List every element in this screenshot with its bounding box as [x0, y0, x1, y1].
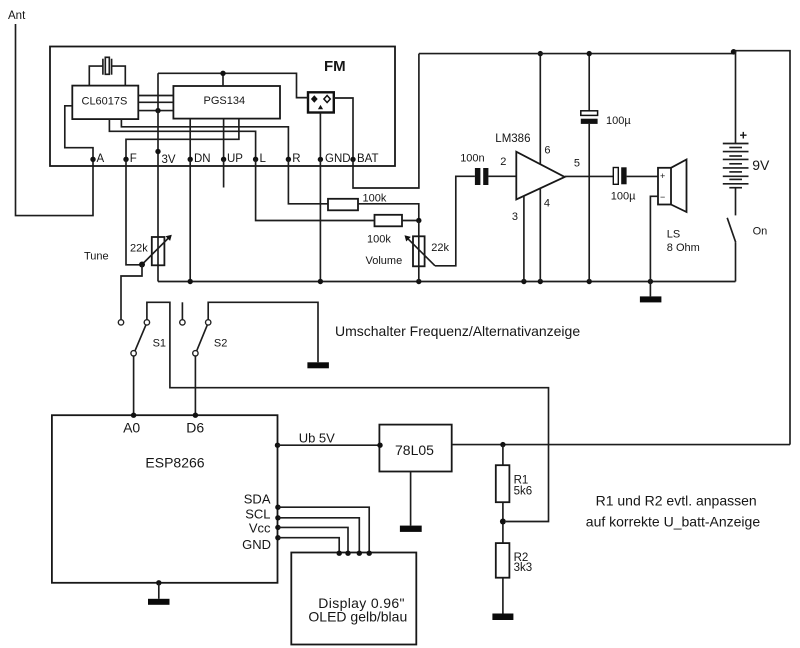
svg-text:SDA: SDA — [244, 492, 271, 507]
pin SDA — [244, 492, 281, 510]
pin GND — [318, 157, 323, 162]
svg-text:+: + — [660, 171, 665, 181]
V+ rail right jog — [733, 51, 790, 445]
svg-text:3: 3 — [512, 211, 518, 223]
svg-text:LM386: LM386 — [495, 133, 530, 145]
junction on bus line 3 and 3V line — [155, 108, 160, 113]
ground rail — [158, 281, 736, 283]
wire SDA to display — [278, 507, 369, 553]
wire 100k lower to mix node — [402, 220, 419, 222]
junction 3V net at PGS134 top pin — [220, 71, 225, 76]
pin 5 output wire — [565, 175, 614, 177]
pin 4 line — [539, 188, 541, 281]
svg-text:22k: 22k — [431, 242, 449, 254]
regulator 78L05 — [379, 425, 451, 472]
IC PGS134 — [173, 86, 280, 119]
wire indicator right lead to BAT — [334, 98, 353, 159]
junction DN at rail — [188, 279, 193, 284]
module FM box — [50, 47, 395, 167]
pin BAT — [350, 157, 355, 162]
capacitor 100u decoupling — [581, 54, 632, 282]
MCU ESP8266 box — [52, 415, 278, 583]
junction R1 R2 — [500, 519, 506, 525]
pin SCL — [245, 507, 280, 522]
wire R pin to 100k upper — [288, 159, 328, 204]
IC CL6017S — [72, 86, 138, 120]
junction 100u at V+ rail — [587, 51, 592, 56]
speaker LS — [658, 160, 700, 255]
pin 3V — [155, 149, 160, 154]
svg-text:4: 4 — [544, 198, 550, 210]
wire Volume track — [418, 221, 420, 282]
pin Vcc — [249, 521, 281, 536]
junction GND at rail — [318, 279, 323, 284]
junction pin3 at rail — [521, 279, 526, 284]
resistor R2 3k3 — [496, 543, 532, 613]
resistor 100k upper (R channel) — [328, 192, 387, 210]
wire S1 common to A0 — [133, 356, 135, 415]
wire A pin to CL6017S left pin — [65, 106, 93, 160]
svg-text:5k6: 5k6 — [514, 485, 533, 497]
junction 78L05 input — [377, 443, 382, 448]
ground symbol ESP — [148, 583, 170, 605]
pin 3 line — [523, 196, 525, 282]
potentiometer Tune 22k body — [152, 237, 165, 265]
svg-text:R1 und R2 evtl. anpassen: R1 und R2 evtl. anpassen — [596, 493, 757, 509]
svg-text:OLED gelb/blau: OLED gelb/blau — [308, 609, 407, 625]
display box — [291, 553, 416, 645]
pin L — [253, 157, 258, 162]
svg-text:3k3: 3k3 — [514, 562, 533, 574]
junction display SCL — [357, 551, 362, 556]
wire Ub 5V to 78L05 — [278, 444, 381, 446]
svg-text:L: L — [260, 153, 267, 165]
wire indicator bottom lead to GND pin — [319, 113, 321, 160]
junction display Vcc — [345, 551, 350, 556]
wire SCL to display — [278, 518, 359, 553]
wire 78L05 to battery plus — [452, 444, 790, 446]
svg-text:CL6017S: CL6017S — [82, 96, 128, 108]
svg-text:FM: FM — [324, 58, 346, 75]
wire CL6017S to PGS134 bus line 1 — [138, 95, 173, 97]
svg-text:LS: LS — [667, 229, 680, 241]
junction Tune wiper — [139, 262, 145, 268]
wire R pin to CL6017S bottom pin — [121, 119, 288, 159]
junction speaker minus at rail — [648, 279, 653, 284]
svg-text:6: 6 — [544, 144, 550, 156]
wire L pin to 100k lower — [256, 159, 375, 220]
wire F pin to Tune wiper — [126, 159, 142, 264]
wire S2 common to D6 — [194, 356, 196, 415]
junction R1 top — [500, 442, 505, 447]
svg-text:UP: UP — [227, 153, 243, 165]
ground symbol S2 — [307, 362, 329, 368]
wire L pin to CL6017S bottom pin — [109, 119, 255, 159]
svg-text:22k: 22k — [130, 243, 148, 255]
svg-text:DN: DN — [194, 153, 211, 165]
svg-text:2: 2 — [500, 156, 506, 168]
svg-text:S2: S2 — [214, 337, 227, 349]
wire DN to ground rail — [189, 159, 191, 281]
wire 3V vertical line — [157, 73, 159, 281]
wire 100k upper to mix node — [358, 204, 419, 221]
wire S2 contact to ground — [208, 302, 318, 362]
wire BAT to V+ rail — [353, 54, 419, 188]
svg-text:GND: GND — [325, 153, 351, 165]
wire crystal right lead to CL6017S — [112, 66, 126, 86]
svg-text:9V: 9V — [752, 157, 770, 173]
svg-text:5: 5 — [574, 158, 580, 170]
ground symbol 78L05 — [400, 472, 422, 532]
wire output cap to speaker — [627, 175, 658, 177]
pin 6 line — [539, 54, 541, 165]
crystal Q1 — [103, 57, 112, 74]
wire GND to display — [278, 538, 339, 554]
wire CL6017S to PGS134 bus line 3 — [138, 110, 173, 112]
svg-text:S1: S1 — [153, 337, 166, 349]
wire UP pin to PGS134 — [223, 119, 225, 160]
wire Tune wiper to switch S1 left contact — [121, 265, 142, 320]
pin F — [123, 157, 128, 162]
svg-text:100µ: 100µ — [611, 190, 636, 202]
wire indicator left lead — [297, 97, 309, 99]
svg-text:8 Ohm: 8 Ohm — [667, 242, 700, 254]
junction pin 6 at V+ rail — [538, 51, 543, 56]
wire crystal left lead to CL6017S — [89, 66, 103, 86]
pin Ub 5V — [275, 431, 335, 448]
svg-text:100k: 100k — [363, 192, 387, 204]
V+ rail — [419, 53, 734, 55]
capacitor 100u output — [611, 167, 636, 202]
contact circle spare stub — [180, 320, 185, 325]
pin R — [286, 157, 291, 162]
svg-text:Ub 5V: Ub 5V — [299, 431, 335, 446]
wire S1 contact to battery divider — [147, 302, 549, 521]
svg-text:100µ: 100µ — [606, 115, 631, 127]
svg-text:Vcc: Vcc — [249, 521, 271, 536]
svg-text:Tune: Tune — [84, 251, 109, 263]
svg-text:auf korrekte U_batt-Anzeige: auf korrekte U_batt-Anzeige — [586, 514, 761, 530]
wire Vcc to display — [278, 527, 348, 553]
svg-text:F: F — [130, 153, 137, 165]
pin GND ESP — [242, 535, 280, 552]
junction cap at rail — [587, 279, 592, 284]
svg-text:R: R — [292, 153, 300, 165]
capacitor 100n — [460, 152, 488, 185]
wire antenna from Ant to pin A — [16, 24, 94, 216]
wire F pin to PGS134 bottom pin — [126, 119, 239, 160]
wire GND pin to ground rail — [319, 159, 321, 281]
svg-text:3V: 3V — [162, 154, 176, 166]
switch S1 — [131, 320, 166, 356]
battery 9V — [723, 51, 770, 188]
wire DN pin to PGS134 — [189, 119, 191, 160]
resistor 100k lower (L channel) — [367, 215, 402, 246]
svg-text:GND: GND — [242, 537, 271, 552]
stereo indicator component in FM module — [308, 92, 334, 112]
wire CL6017S to PGS134 bus line 2 — [138, 101, 173, 103]
svg-text:A0: A0 — [123, 420, 140, 436]
svg-text:A: A — [97, 153, 105, 165]
junction pin4 at rail — [538, 279, 543, 284]
pin DN — [188, 157, 193, 162]
wire battery minus to switch — [735, 188, 737, 216]
ground symbol main — [640, 282, 662, 303]
switch On — [727, 218, 767, 243]
switch S2 — [193, 320, 228, 356]
wire 3V net top run — [158, 73, 308, 97]
potentiometer Volume wiper arrow — [405, 235, 436, 265]
junction Volume at rail — [416, 279, 421, 284]
svg-text:On: On — [753, 226, 768, 238]
wire UP stub below module — [223, 159, 225, 187]
potentiometer Tune wiper arrow — [142, 235, 172, 265]
junction battery plus — [731, 49, 737, 55]
svg-text:+: + — [740, 128, 748, 143]
svg-text:−: − — [660, 192, 665, 202]
junction display GND — [337, 551, 342, 556]
svg-text:BAT: BAT — [357, 153, 379, 165]
op-amp U1 LM386 — [495, 133, 564, 199]
pin ESP ground — [156, 580, 161, 585]
svg-text:Volume: Volume — [366, 255, 403, 267]
wire PGS134 top pin stub — [222, 73, 224, 86]
svg-text:100k: 100k — [367, 234, 391, 246]
svg-text:Ant: Ant — [8, 10, 26, 22]
svg-text:Umschalter Frequenz/Alternativ: Umschalter Frequenz/Alternativanzeige — [335, 323, 580, 339]
svg-text:ESP8266: ESP8266 — [145, 454, 204, 470]
pin D6 — [186, 413, 204, 436]
svg-text:PGS134: PGS134 — [204, 95, 246, 107]
wire spare stub — [181, 302, 183, 319]
resistor R1 5k6 — [496, 445, 532, 543]
pin A — [90, 157, 95, 162]
potentiometer Volume 22k body — [413, 236, 425, 266]
ground symbol R2 — [492, 614, 513, 621]
svg-text:100n: 100n — [460, 152, 484, 164]
wire 100n to pin 2 — [488, 175, 516, 177]
wire speaker minus to ground — [650, 196, 658, 281]
junction mix node — [416, 218, 421, 223]
svg-text:D6: D6 — [186, 420, 204, 436]
pin UP — [221, 157, 226, 162]
wire Volume wiper to 100n — [435, 176, 475, 265]
junction display SDA — [367, 551, 372, 556]
contact circle Tune feed — [118, 320, 123, 325]
svg-text:78L05: 78L05 — [395, 442, 434, 458]
pin A0 — [123, 413, 140, 436]
wire switch to ground rail — [735, 242, 737, 281]
svg-text:SCL: SCL — [245, 507, 270, 522]
